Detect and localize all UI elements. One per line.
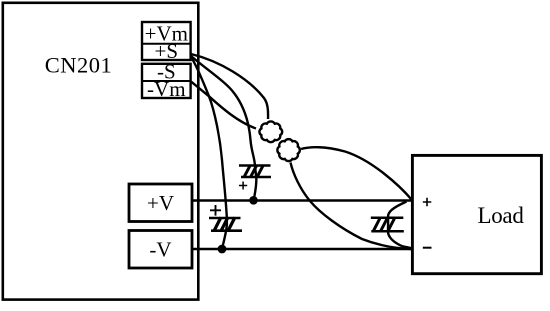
junction dot on +V wire: [249, 196, 258, 205]
svg-text:-V: -V: [149, 237, 171, 261]
CN201 enclosure box: [3, 3, 199, 300]
twist symbol blob 2: [277, 139, 299, 161]
+V output box: [129, 184, 192, 222]
Load box: [412, 155, 541, 273]
svg-text:Load: Load: [477, 203, 524, 228]
wire shield drain 2 (through hatch 2 to -V dot): [191, 57, 227, 248]
plus label of hatch 1: [239, 182, 247, 190]
-V output box: [129, 231, 192, 269]
load + terminal mark: [423, 198, 432, 206]
shield hatch symbol 2: [209, 217, 242, 231]
wire +V to Load: [192, 199, 413, 201]
divider +Vm/+S: [142, 43, 191, 45]
svg-text:CN201: CN201: [45, 53, 113, 78]
terminal block A (+Vm,+S): [142, 22, 191, 60]
svg-text:-Vm: -Vm: [147, 77, 186, 101]
wire -S sense pair lower (lens bottom to twist): [191, 82, 256, 129]
junction dot on -V wire: [218, 245, 227, 254]
wire shield drain 3 (through hatch 3, + corner to - corner at load): [388, 202, 412, 249]
wire twisted pair to Load - (big lens bottom): [291, 163, 412, 250]
svg-text:+V: +V: [147, 191, 174, 215]
wire twisted pair to Load + (big lens top): [301, 147, 412, 199]
terminal block B (-S,-Vm): [142, 64, 191, 98]
shield hatch symbol 1: [239, 165, 271, 178]
wire shield drain 1 (through hatch 1 to +V dot): [191, 56, 256, 200]
twist symbol blob 1: [259, 121, 282, 142]
plus label of hatch 2: [210, 205, 221, 216]
divider -S/-Vm: [142, 80, 191, 82]
wire +S sense pair upper (lens top): [191, 54, 268, 119]
shield hatch symbol 3: [371, 218, 404, 232]
wire -V to Load: [192, 248, 413, 250]
load - terminal mark: [423, 247, 432, 249]
